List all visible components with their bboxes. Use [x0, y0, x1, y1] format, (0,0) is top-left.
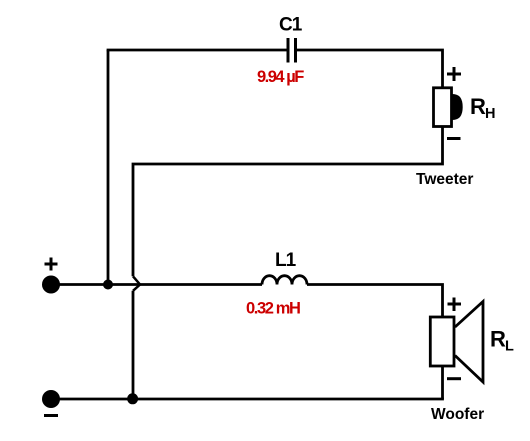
wire: tweeter return down, left along y=164, down x=133 to crossover hop: [133, 127, 443, 277]
tweeter body (resistor RH rectangle): [434, 88, 452, 127]
svg-text:R: R: [490, 327, 506, 352]
wire: top rail left segment to C1: [107, 49, 287, 52]
inductor L1 (three humps): [262, 276, 307, 285]
capacitor C1 plates: [288, 38, 296, 63]
plus sign at woofer: [448, 298, 462, 312]
input terminal - (filled dot): [42, 390, 60, 408]
minus sign at input: [44, 414, 58, 417]
svg-text:0.32 mH: 0.32 mH: [246, 300, 300, 318]
svg-text:H: H: [485, 106, 495, 122]
svg-text:C1: C1: [279, 15, 303, 36]
wire: + rail from terminal to inductor: [51, 283, 262, 286]
plus sign at input: [45, 258, 58, 271]
wire: left vertical riser x=108 (input + to C1): [107, 50, 110, 285]
junction node on bottom rail at x=133: [127, 393, 138, 404]
wire: top rail right segment from C1 to tweeter drop: [297, 50, 443, 88]
woofer body (resistor RL rectangle): [430, 317, 454, 366]
svg-text:L1: L1: [275, 250, 297, 271]
minus sign at woofer: [447, 377, 461, 380]
wire: woofer bottom to bottom rail: [441, 366, 444, 399]
wire: + rail from inductor to woofer drop: [307, 285, 443, 318]
wire: bottom rail: [51, 398, 444, 401]
svg-text:9.94 µF: 9.94 µF: [257, 68, 304, 86]
minus sign at tweeter: [447, 137, 461, 140]
junction node on + rail at x=108: [103, 280, 113, 290]
input terminal + (filled dot): [42, 276, 60, 294]
svg-text:R: R: [470, 94, 486, 119]
plus sign at tweeter: [447, 67, 461, 81]
wire hop: vertical crosses + rail without connecting: [133, 276, 140, 291]
tweeter dome: [453, 94, 463, 120]
svg-text:L: L: [505, 339, 514, 355]
svg-text:Woofer: Woofer: [431, 406, 484, 423]
svg-text:Tweeter: Tweeter: [416, 171, 473, 188]
woofer cone: [455, 302, 483, 383]
wire: second vertical lower segment to bottom rail: [132, 291, 135, 399]
